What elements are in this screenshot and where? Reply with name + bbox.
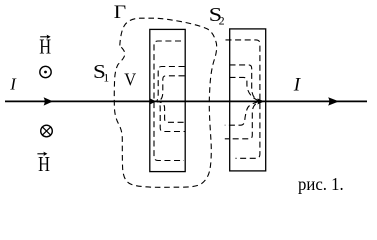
- svg-text:рис. 1.: рис. 1.: [298, 174, 344, 194]
- wire arrow A2: [150, 98, 156, 104]
- H vector bottom: arrow: [37, 152, 47, 156]
- svg-text:H: H: [38, 153, 50, 176]
- label Gamma: [114, 2, 127, 23]
- field out of page symbol (circle cross): [41, 125, 53, 137]
- H vector top: letter H: [39, 36, 51, 59]
- label S1: [93, 61, 106, 83]
- svg-text:1: 1: [103, 71, 109, 85]
- label S2: [209, 3, 222, 26]
- label fig caption: [298, 174, 344, 194]
- svg-text:2: 2: [219, 14, 225, 28]
- field line rect2 loop2: [225, 65, 261, 139]
- contour Gamma (closed dashed curve): [114, 18, 216, 187]
- label V: [124, 70, 136, 90]
- field line rect1 loop1: [154, 41, 184, 161]
- field line rect1 loop3: [157, 76, 185, 123]
- svg-text:Γ: Γ: [114, 2, 127, 23]
- svg-text:V: V: [124, 70, 136, 90]
- H vector top: arrow: [40, 35, 50, 39]
- wire: [5, 100, 367, 102]
- field line rect2 loop1: [226, 40, 260, 158]
- field into page symbol (circle dot): [40, 66, 51, 77]
- wire arrow A3: [257, 98, 264, 104]
- plate rectangle 2: [230, 29, 266, 171]
- wire arrow A4: [328, 97, 339, 105]
- svg-text:H: H: [39, 36, 51, 59]
- H vector bottom: letter H: [38, 153, 50, 176]
- plate rectangle 1: [150, 29, 185, 171]
- field line rect1 loop2: [156, 67, 185, 132]
- field line rect2 loop3: [225, 77, 260, 125]
- wire arrow A1: [44, 97, 53, 105]
